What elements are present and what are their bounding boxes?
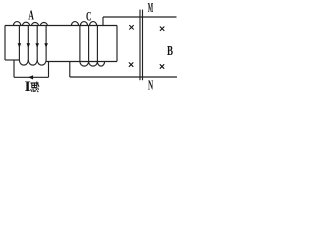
svg-text:B: B — [167, 44, 173, 59]
svg-text:M: M — [148, 1, 153, 16]
svg-text:C: C — [86, 10, 92, 24]
svg-text:N: N — [148, 78, 153, 93]
svg-text:A: A — [28, 9, 34, 24]
svg-text:I: I — [25, 79, 31, 93]
